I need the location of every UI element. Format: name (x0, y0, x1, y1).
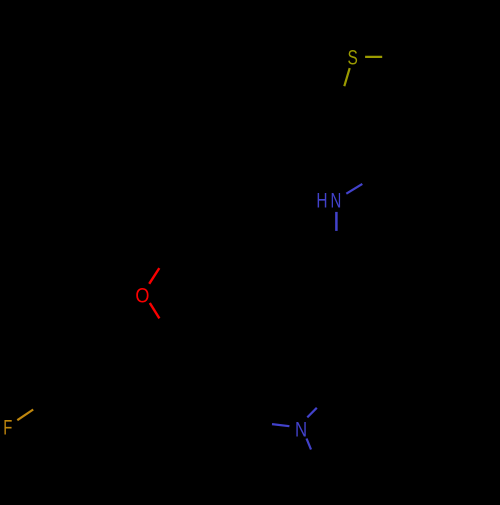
svg-text:F: F (3, 415, 12, 439)
bond O1 to C (down-right) (150, 303, 160, 318)
bond O1 to C (up-right) (149, 268, 159, 284)
bond N2 to C (up-right) (307, 408, 317, 418)
bond S1 to C (methyl, right) (365, 56, 382, 58)
svg-text:N: N (330, 189, 341, 212)
svg-text:N: N (295, 419, 307, 442)
svg-text:O: O (135, 284, 149, 308)
svg-text:H: H (316, 188, 327, 212)
bond N2 to C (methyl, left) (272, 424, 289, 426)
svg-text:S: S (347, 45, 357, 69)
bond NH to C (down, vertical) (335, 212, 338, 231)
bond S1 to C (ring, down-left) (344, 68, 349, 86)
bond F1 to C (up-right) (17, 410, 33, 421)
bond N2 to C (down-right) (307, 439, 312, 450)
bond NH to C (up-right) (346, 184, 362, 194)
